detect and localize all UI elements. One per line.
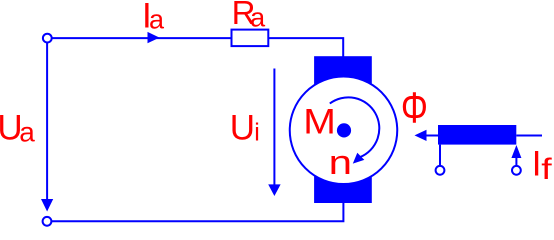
field winding Lf body: [438, 125, 516, 145]
rotation arrow head: [353, 153, 365, 164]
svg-text:n: n: [329, 144, 352, 183]
svg-text:M: M: [303, 101, 336, 141]
svg-text:I: I: [532, 145, 542, 184]
svg-text:Φ: Φ: [401, 85, 428, 133]
wire field right lead horizontal: [516, 135, 542, 137]
current arrow Ia: [148, 32, 160, 43]
brush bottom: [314, 162, 372, 203]
wire resistor to motor: [268, 38, 343, 57]
flux arrow shaft: [426, 135, 439, 137]
flux arrow head: [415, 130, 427, 141]
wire top armature: [52, 37, 232, 39]
svg-text:a: a: [149, 4, 165, 34]
brush top: [314, 56, 372, 98]
terminal A2 (armature -): [43, 217, 52, 226]
svg-text:a: a: [19, 116, 35, 147]
wire bottom return: [51, 202, 343, 221]
rotation arrow arc: [330, 97, 379, 157]
voltage arrow Ua head: [41, 199, 53, 212]
terminal F1 (field left): [436, 166, 445, 175]
terminal F2 (field right): [512, 166, 521, 175]
voltage arrow Ui line: [273, 69, 275, 187]
terminal A1 (armature +): [43, 34, 52, 43]
current arrow If head: [511, 145, 521, 158]
svg-text:i: i: [254, 118, 260, 146]
voltage arrow Ui head: [268, 184, 280, 196]
svg-text:a: a: [250, 3, 266, 33]
shaft dot: [337, 123, 351, 137]
wire left Ua branch: [46, 43, 48, 201]
wire field left drop: [439, 145, 441, 165]
resistor Ra: [232, 30, 269, 46]
svg-text:U: U: [230, 109, 255, 148]
wire field right drop: [515, 157, 517, 165]
svg-text:f: f: [541, 153, 552, 187]
motor armature circle M1: [290, 77, 398, 185]
